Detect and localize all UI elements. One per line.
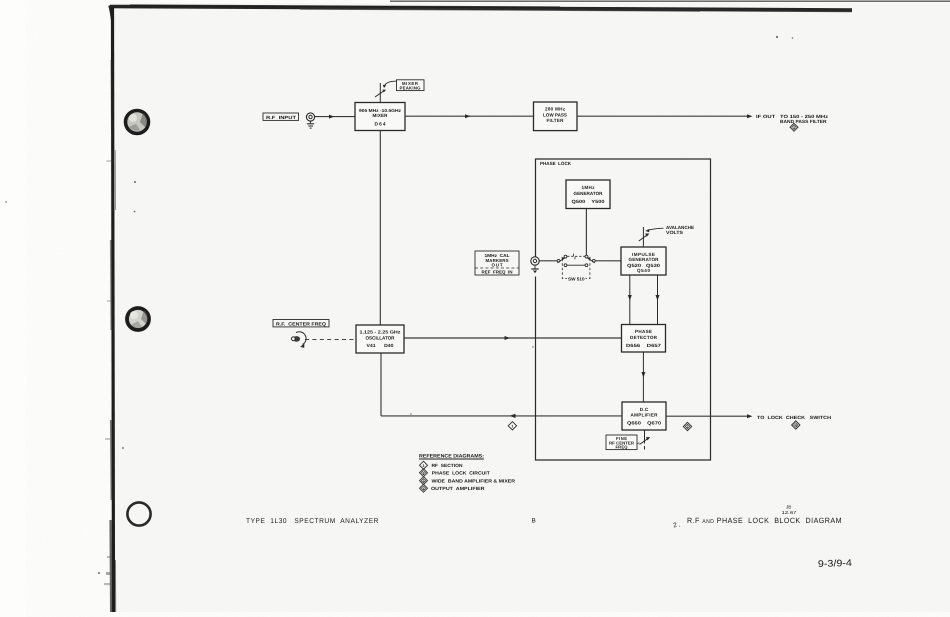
arrowhead osc to PD: [504, 336, 510, 340]
svg-text:OUTPUT AMPLIFIER: OUTPUT AMPLIFIER: [431, 486, 485, 491]
lower-right contact: [585, 264, 588, 267]
mechanical link (dashed): [567, 255, 585, 257]
svg-text:PHASE: PHASE: [635, 329, 652, 334]
oscillator V41 D40: [356, 325, 404, 353]
svg-text:V41 D40: V41 D40: [366, 343, 393, 348]
wire phase detector to DC amplifier: [642, 352, 644, 402]
variable arrow (fine RF center freq): [639, 437, 650, 445]
leader from AVALANCHE VOLTS text: [648, 228, 664, 230]
svg-text:TYPE 1L30 SPECTRUM ANALYZE: TYPE 1L30 SPECTRUM ANALYZER: [246, 518, 379, 525]
punch hole 2: [127, 308, 149, 330]
svg-text:DETECTOR: DETECTOR: [630, 335, 658, 340]
upper-right contact: [585, 255, 588, 258]
text IF OUT destination: [756, 114, 829, 124]
svg-text:1: 1: [511, 424, 513, 428]
svg-text:3: 3: [793, 126, 795, 130]
svg-text:FREQ: FREQ: [615, 445, 628, 450]
arrowhead mixer to LPF: [465, 114, 471, 118]
svg-text:PHASE LOCK: PHASE LOCK: [540, 161, 572, 166]
svg-text:1: 1: [422, 464, 424, 468]
wire mixer down to oscillator: [379, 130, 381, 325]
wires impulse generator to phase detector: [629, 275, 631, 325]
punch hole 3: [127, 502, 150, 525]
wire LPF to IF OUT: [577, 115, 748, 117]
svg-text:MIXER: MIXER: [373, 113, 389, 118]
svg-text:Q660 Q670: Q660 Q670: [627, 421, 662, 426]
svg-text:PEAKING: PEAKING: [400, 85, 422, 90]
reference diamond 2 (inside phase lock): [683, 422, 691, 430]
switch dashed outline: [562, 259, 567, 279]
dashed wire knob to oscillator: [305, 338, 356, 340]
svg-text:2 .: 2 .: [673, 521, 681, 529]
leader from FINE label to pot: [637, 442, 641, 443]
svg-text:OSCILLATOR: OSCILLATOR: [365, 335, 395, 340]
arrowhead lock check: [747, 414, 753, 418]
arrowhead PD to DC amp: [641, 372, 645, 378]
1MHz generator Q500 Y500: [566, 180, 610, 209]
svg-text:LOW PASS: LOW PASS: [543, 112, 567, 117]
legend header REFERENCE DIAGRAMS: [419, 454, 484, 460]
paper top edge shadow: [110, 5, 853, 22]
label R.F INPUT: [263, 113, 299, 120]
DC amplifier Q660 Q670: [622, 402, 666, 430]
legend diamond 3: [419, 477, 427, 485]
arrowhead right line: [656, 295, 660, 301]
wire between lower contacts: [567, 264, 585, 266]
ground (phase lock connector): [531, 265, 538, 273]
svg-text:IMPULSE: IMPULSE: [632, 252, 655, 257]
svg-text:4: 4: [795, 424, 797, 428]
arrowhead feedback (points left): [509, 414, 515, 418]
svg-text:R.F. CENTER FREQ: R.F. CENTER FREQ: [276, 321, 326, 326]
wire mixer to low pass filter: [405, 115, 533, 117]
paper grain: [0, 0, 1, 1]
svg-text:4: 4: [422, 487, 424, 491]
svg-text:2: 2: [422, 471, 424, 475]
svg-text:3: 3: [422, 479, 424, 483]
svg-text:GENERATOR: GENERATOR: [629, 257, 660, 262]
svg-text:D.C: D.C: [640, 407, 649, 412]
right pole lever: [589, 259, 595, 263]
arrowhead IF OUT: [747, 114, 753, 118]
reference diamond 3 (at IF OUT): [790, 123, 798, 131]
phase detector D656 D657: [621, 325, 665, 353]
wire 2 impulse to PD: [657, 275, 659, 325]
leader from MIXER PEAKING label: [384, 81, 396, 85]
svg-text:GENERATOR: GENERATOR: [574, 191, 604, 196]
connector J (phase lock, on enclosure edge): [531, 257, 539, 265]
arrowhead on input wire: [329, 115, 334, 119]
wire oscillator to phase detector: [404, 337, 622, 339]
text AVALANCHE VOLTS: [666, 225, 694, 235]
svg-text:BAND PASS FILTER: BAND PASS FILTER: [780, 119, 827, 124]
svg-text:12.67: 12.67: [781, 510, 797, 515]
fine RF center freq stub wire: [643, 430, 645, 444]
svg-text:SW 510: SW 510: [568, 276, 585, 281]
svg-text:Q500 Y500: Q500 Y500: [572, 199, 606, 204]
binding strip: [104, 7, 116, 612]
wire oscillator down to feedback line: [380, 353, 382, 416]
mixer D64: [355, 102, 405, 130]
ground (RF input connector): [307, 121, 314, 128]
wire connector to mixer: [315, 116, 355, 118]
low pass filter: [534, 102, 578, 131]
second page thin top edge: [390, 0, 950, 2]
svg-text:TO LOCK CHECK SWITCH: TO LOCK CHECK SWITCH: [757, 415, 832, 420]
label FINE RF CENTER FREQ: [606, 435, 637, 450]
lower-left contact: [564, 264, 567, 267]
variable arrow (mixer peaking adjust): [375, 89, 386, 97]
svg-text:VOLTS: VOLTS: [666, 230, 683, 235]
arrowhead left line: [628, 295, 632, 301]
knob (RF center freq control): [291, 332, 306, 348]
label MIXER PEAKING: [397, 80, 425, 91]
svg-text:R.F INPUT: R.F INPUT: [266, 115, 296, 120]
svg-text:RF SECTION: RF SECTION: [431, 463, 463, 468]
svg-text:1MHz: 1MHz: [582, 185, 596, 190]
switch SW 510: [557, 254, 595, 282]
label R.F. CENTER FREQ: [273, 319, 329, 326]
svg-text:280 MHz: 280 MHz: [545, 107, 566, 112]
reference diamond 1 (feedback line): [508, 422, 516, 430]
svg-text:FILTER: FILTER: [547, 118, 565, 123]
svg-text:9-3/9-4: 9-3/9-4: [818, 558, 852, 570]
impulse generator Q520 Q530 Q540: [621, 247, 666, 275]
left pole contact: [557, 259, 560, 262]
svg-text:PHASE LOCK CIRCUIT: PHASE LOCK CIRCUIT: [432, 471, 490, 476]
connector J (RF input): [306, 113, 314, 121]
svg-text:WIDE BAND AMPLIFIER & MIXER: WIDE BAND AMPLIFIER & MIXER: [431, 478, 515, 483]
svg-text:OUT: OUT: [492, 262, 503, 267]
wire 1MHz gen down to switch contact: [585, 209, 587, 256]
legend diamond 4: [419, 484, 427, 492]
wire DC amp to lock check switch: [666, 415, 748, 417]
svg-text:AMPLIFIER: AMPLIFIER: [630, 412, 658, 417]
legend diamond 2: [419, 469, 427, 477]
avalanche volts stub wire: [642, 227, 644, 247]
wire switch to impulse generator: [595, 260, 621, 262]
left pole lever: [557, 259, 563, 263]
legend diamond 1: [419, 461, 427, 469]
coupling ticks: [573, 254, 575, 257]
svg-text:D64: D64: [375, 122, 386, 128]
svg-text:1.125 - 2.25 GHz: 1.125 - 2.25 GHz: [359, 329, 401, 334]
variable arrow (avalanche volts adjust): [639, 233, 650, 241]
svg-text:2: 2: [686, 425, 688, 429]
svg-text:JB: JB: [786, 505, 791, 510]
svg-text:D656 D657: D656 D657: [626, 343, 662, 348]
label 1MHz CAL MARKERS OUT / REF FREQ IN: [475, 251, 519, 275]
reference diamond 4 (lock check): [792, 421, 800, 429]
punch hole 1: [126, 110, 149, 133]
right pole contact: [592, 259, 595, 262]
svg-text:Q540: Q540: [637, 268, 650, 273]
wire connector to switch pole: [539, 260, 557, 262]
svg-text:REF FREQ IN: REF FREQ IN: [482, 269, 513, 274]
svg-text:B: B: [531, 518, 535, 525]
upper-left contact: [564, 255, 567, 258]
mixer peaking stub wire: [379, 83, 381, 103]
phase lock enclosure: [535, 159, 710, 460]
feedback wire DC amp to oscillator: [381, 415, 622, 417]
